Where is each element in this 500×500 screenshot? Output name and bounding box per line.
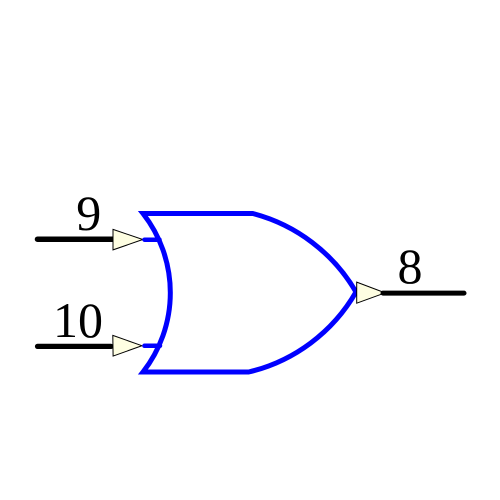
pin 8 output buffer triangle [357, 282, 385, 303]
pin 10 wire [38, 344, 112, 349]
svg-text:9: 9 [76, 185, 101, 241]
pin 10 blue stub wire [144, 344, 160, 349]
svg-text:10: 10 [53, 292, 103, 348]
svg-text:8: 8 [398, 238, 423, 294]
pin 10 input buffer triangle [113, 335, 142, 356]
pin 9 wire [38, 236, 114, 242]
OR gate U1 body [143, 214, 356, 373]
pin 9 input buffer triangle [113, 229, 143, 250]
pin 9 blue stub wire [145, 237, 160, 242]
pin 8 wire [383, 291, 464, 296]
